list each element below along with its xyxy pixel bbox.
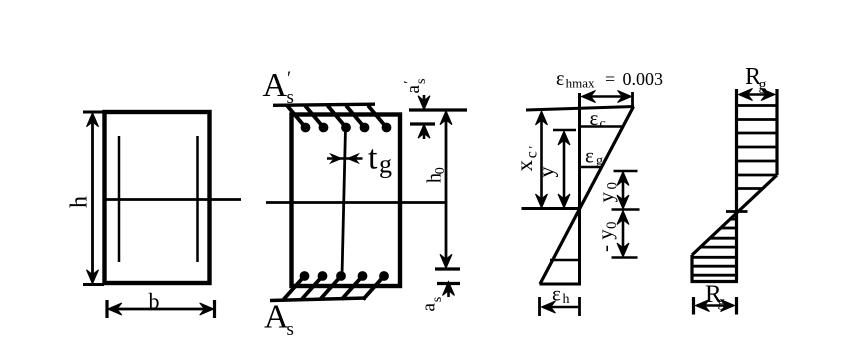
strain axis vertical line <box>578 93 581 284</box>
label b <box>149 289 160 314</box>
eps_h tick left <box>538 297 541 316</box>
strain bottom line <box>540 283 582 286</box>
svg-text:b: b <box>149 289 160 314</box>
dimension h line <box>87 113 99 284</box>
label xc' <box>512 146 541 172</box>
label eps_g <box>585 144 603 169</box>
top steel level extension line <box>410 122 435 125</box>
y dimension top tick <box>553 129 576 132</box>
label y <box>533 167 558 178</box>
y0 middle tick <box>612 208 640 211</box>
dimension y0 line <box>617 172 629 210</box>
label Rg top <box>745 64 767 94</box>
bottom fibre extension line <box>437 282 460 285</box>
top reinforcement bar line <box>273 104 375 105</box>
svg-text:As: As <box>264 299 294 341</box>
top fibre extension line <box>409 108 467 111</box>
dimension eps_h line <box>542 301 579 313</box>
label Rg bottom <box>705 281 726 311</box>
strain diagonal <box>540 107 634 285</box>
bottom steel level extension line <box>435 267 460 270</box>
top bar hooks with end dots <box>287 106 391 132</box>
svg-text:as: as <box>419 297 446 312</box>
svg-text:εg: εg <box>585 144 603 169</box>
partial hatch below top block <box>737 187 762 190</box>
svg-text:y0: y0 <box>594 182 621 203</box>
svg-text:- y0: - y0 <box>593 222 620 253</box>
strain lower level line <box>550 259 581 262</box>
label h0 <box>424 167 449 183</box>
stress diagonal <box>692 175 777 255</box>
dimension b tick right <box>213 300 216 318</box>
label A's <box>263 67 294 108</box>
dimension a's arrows <box>418 95 430 139</box>
tendon centre vertical line <box>342 128 346 276</box>
label tg <box>368 140 392 179</box>
stress block right edge <box>775 89 778 175</box>
eps_g level line <box>580 166 603 169</box>
section centerline <box>105 198 242 201</box>
svg-text:Rg: Rg <box>705 281 726 311</box>
dimension y line <box>558 131 570 208</box>
svg-text:εhmax=0.003: εhmax=0.003 <box>556 68 663 91</box>
svg-text:εc: εc <box>590 106 606 132</box>
neutral axis line <box>522 207 580 210</box>
label eps_c <box>590 106 606 132</box>
dimension Rg bottom <box>696 300 735 312</box>
svg-text:h0: h0 <box>424 167 449 183</box>
neutral axis tick <box>726 210 748 213</box>
eps_hmax dimension arrow <box>582 91 632 103</box>
label eps_hmax = 0.003 <box>556 68 663 91</box>
svg-text:Rg: Rg <box>745 64 767 94</box>
svg-text:a′s: a′s <box>402 79 429 94</box>
label eps_h <box>552 282 570 308</box>
svg-text:h: h <box>67 196 93 208</box>
label y0 <box>594 182 621 203</box>
bottom reinforcement bar line <box>270 298 366 301</box>
dimension b tick left <box>105 300 108 318</box>
right rebar line <box>196 136 199 262</box>
label -y0 <box>593 222 620 253</box>
extension line bottom-left of section <box>83 283 104 286</box>
y0 bottom tick <box>612 256 638 259</box>
top block hatching <box>737 106 778 176</box>
extension line top-left of section <box>83 111 104 114</box>
bottom block bottom edge <box>691 280 739 283</box>
dimension -y0 line <box>617 211 629 258</box>
label As <box>264 299 294 341</box>
stress block left edge <box>735 89 738 282</box>
eps_h tick right <box>578 297 581 316</box>
dimension as arrow <box>443 282 455 298</box>
bottom block left edge <box>690 255 693 282</box>
strain top line <box>526 107 634 111</box>
label as <box>419 297 446 312</box>
left rebar line <box>118 136 121 262</box>
bottom bar hooks with end dots <box>284 272 389 300</box>
eps_c level line <box>580 125 624 128</box>
svg-text:tg: tg <box>368 140 392 179</box>
y0 top tick <box>614 170 638 173</box>
dimension b line <box>108 303 214 315</box>
svg-text:y: y <box>533 167 558 178</box>
bottom Rg tick right <box>735 297 738 315</box>
label a's <box>402 79 429 94</box>
dimension xc line <box>536 111 548 208</box>
reinforced section outline <box>292 115 401 287</box>
bottom Rg tick left <box>692 297 695 315</box>
bottom block hatching <box>692 219 737 275</box>
tg dimension line <box>327 154 363 163</box>
concrete section outline (b x h) <box>105 112 210 283</box>
section 2 centerline <box>266 201 446 204</box>
dimension Rg top <box>739 89 776 101</box>
dimension h0 line <box>440 111 452 269</box>
eps_hmax right tick <box>631 92 634 107</box>
svg-text:A′s: A′s <box>263 67 294 108</box>
label h <box>67 196 93 208</box>
